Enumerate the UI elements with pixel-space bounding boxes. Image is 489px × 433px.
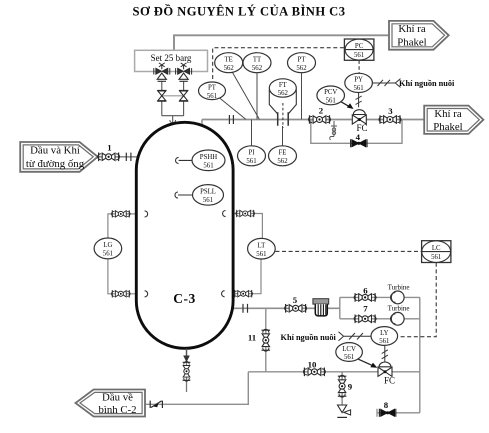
wire drain stub with hook [331,121,337,137]
banner Khi ra Phakel right [424,106,483,134]
control valve LCV FC bottom with actuator [378,362,395,386]
dashed signal LC561 to LY561 [398,263,436,337]
box Set 25 barg [135,50,208,71]
svg-text:8: 8 [384,400,389,410]
valve LT top [236,210,255,217]
svg-text:561: 561 [103,251,113,258]
svg-text:PSLL: PSLL [200,189,216,196]
instrument PSLL561 [193,185,224,206]
wire liquid outlet pipe [231,307,340,309]
svg-text:562: 562 [224,65,235,72]
svg-text:7: 7 [363,303,368,313]
wire vessel bottom drain [186,349,188,393]
instrument LCV561 [336,343,363,362]
dashed signal PC561 to PY561 [358,61,360,74]
banner Dau va Khi tu duong ong [20,142,98,172]
controller LC561 [422,241,451,263]
svg-text:Khí nguồn nuôi: Khí nguồn nuôi [399,79,455,88]
valve 9 [338,375,347,397]
isolation valve under PSV right [179,90,188,101]
wire impulse TT562 to pipe [256,73,258,120]
svg-text:Set 25 barg: Set 25 barg [151,53,192,63]
node nozzle hook LG top [145,211,148,217]
valve 8 [379,409,395,417]
instrument LT561 [248,238,276,259]
valve 10 [303,368,325,377]
arrow vessel bottom outflow [186,349,188,357]
svg-text:562: 562 [296,65,307,72]
wire link between relief isolation valves [162,95,184,97]
instrument PT562 [288,53,316,73]
svg-text:Phakel: Phakel [433,121,462,133]
banner Khi ra Phakel top [389,21,449,50]
svg-text:PT: PT [298,57,307,64]
svg-text:561: 561 [326,98,336,105]
svg-text:LCV: LCV [342,346,356,353]
svg-text:1: 1 [107,143,111,153]
wire flare header to Khi ra Phakel [174,35,390,50]
control valve FC top with actuator [352,110,367,133]
valve vessel bottom drain [183,361,191,381]
valve 5 [285,304,307,313]
drain funnel under valve 9 [337,405,350,417]
instrument PY561 [345,73,373,92]
svg-text:Khí nguồn nuôi: Khí nguồn nuôi [281,333,337,342]
wire inlet line from banner to vessel [98,156,139,158]
valve LT bottom [234,290,253,297]
pneumatic air supply to LY561 [339,332,372,341]
wire impulse FE562 [282,126,284,146]
filter strainer [313,299,329,316]
svg-text:Phakel: Phakel [397,36,426,48]
instrument FT562 [269,79,296,97]
wire valve11 drop [265,308,267,372]
valve 1 [98,153,120,162]
svg-text:bình C-2: bình C-2 [98,404,136,416]
valve LG top [111,210,130,217]
controller PC561 [344,39,374,60]
svg-text:2: 2 [319,106,324,116]
node nozzle hook LT bottom [222,291,225,297]
svg-text:561: 561 [353,85,363,92]
relief valve PSV left [154,63,170,81]
wire LT taps [224,214,262,294]
turbine 2 [388,305,410,326]
wire lower pipe to LCV [248,371,419,373]
valve 3 [379,115,401,124]
dashed signal LT561 to LC561 [275,250,421,252]
pneumatic signal PY561 to FC valve [356,93,362,108]
svg-text:Dầu và Khí: Dầu và Khí [30,145,80,157]
svg-text:FC: FC [384,376,395,386]
valve 11 [262,329,271,351]
wire bypass around FC valve [311,120,402,144]
svg-text:LC: LC [432,245,441,252]
isolation valve under PSV left [157,90,166,101]
svg-text:562: 562 [277,158,288,165]
valve 6 [354,293,376,302]
wire valve8 segment [377,409,420,417]
flange pair on top pipe [229,115,233,124]
instrument PI561 [238,146,266,166]
svg-text:PC: PC [355,43,364,50]
valve LG bottom [111,290,130,297]
svg-text:Khí ra: Khí ra [398,23,425,35]
svg-text:Khí ra: Khí ra [434,108,461,120]
svg-text:FT: FT [279,82,288,89]
svg-text:11: 11 [248,332,256,342]
instrument PT561 [199,82,226,100]
instrument FE562 [269,146,297,166]
pneumatic air supply to PY561 [373,79,401,88]
instrument LY561 [371,327,398,346]
turbine 1 [388,283,410,304]
svg-text:562: 562 [252,65,263,72]
arrow PCV561 to valve [339,100,350,106]
dashed signal PT561 to PC561 [213,48,345,79]
wire relief legs [162,81,184,122]
svg-text:5: 5 [293,295,298,305]
svg-text:561: 561 [256,251,266,258]
node nozzle hook LT top [223,211,226,217]
node vessel top nozzle hook [170,120,176,123]
svg-text:561: 561 [203,197,213,204]
instrument PSHH561 [192,150,225,171]
node nozzle hook PSHH [176,157,193,163]
wire top gas pipe [202,119,424,121]
svg-text:từ đường ống: từ đường ống [26,158,85,170]
svg-text:LT: LT [258,243,267,250]
wire turbine outlets to riser [404,297,420,412]
svg-text:Turbine: Turbine [388,305,410,313]
wire turbine branch tee [340,297,392,318]
svg-text:Turbine: Turbine [388,283,410,291]
svg-text:PCV: PCV [324,89,337,96]
valve 4 [351,139,367,147]
valve 7 [354,315,376,324]
svg-text:FE: FE [279,150,287,157]
flange pair on inlet [126,153,131,161]
check valve on dau ve line [150,401,162,408]
svg-text:PI: PI [248,150,255,157]
wire dau ve binh C-2 line [146,372,249,405]
node nozzle hook PSLL [175,192,193,198]
instrument TE562 [215,53,243,73]
svg-text:3: 3 [388,106,393,116]
svg-text:TE: TE [225,57,233,64]
flange pair on outlet pipe [243,304,248,313]
svg-text:PY: PY [354,77,363,84]
wire LG taps [108,214,138,294]
arrow LCV561 to valve [358,359,373,366]
wire valve9 drain drop [341,372,343,405]
svg-text:6: 6 [363,286,368,296]
svg-text:561: 561 [203,163,213,170]
node nozzle hook LG bottom [145,291,148,297]
svg-text:SƠ ĐỒ NGUYÊN LÝ CỦA BÌNH C3: SƠ ĐỒ NGUYÊN LÝ CỦA BÌNH C3 [133,4,346,19]
wire impulse PT561 to pipe [219,98,246,120]
wire impulse PI561 [251,120,253,147]
wire impulse TE562 to pipe [233,73,260,120]
svg-text:Dầu về: Dầu về [102,391,133,403]
pneumatic signal LY561 to LCV valve [382,346,388,362]
svg-text:561: 561 [379,338,389,345]
svg-text:PSHH: PSHH [200,154,217,161]
svg-text:TT: TT [253,57,262,64]
instrument TT562 [243,53,271,73]
svg-text:561: 561 [431,254,441,261]
valve 2 [309,115,331,124]
svg-text:LG: LG [103,242,112,249]
svg-text:LY: LY [380,330,388,337]
svg-text:C-3: C-3 [173,291,196,306]
svg-text:561: 561 [207,93,217,100]
orifice FE562 with FT562 funnel [269,90,296,115]
svg-text:561: 561 [354,52,364,59]
banner Dau ve binh C-2 [76,390,146,417]
wire vessel top stub [201,120,203,127]
svg-text:561: 561 [246,158,256,165]
wire impulse PT562 to pipe [301,73,303,120]
relief valve PSV right [176,63,192,81]
svg-text:562: 562 [278,90,289,97]
svg-text:10: 10 [308,359,317,369]
svg-text:4: 4 [356,132,361,142]
svg-text:561: 561 [344,354,354,361]
instrument LG561 [94,238,122,259]
vessel C-3 [136,122,233,348]
instrument PCV561 [317,86,345,105]
svg-text:PT: PT [208,85,217,92]
svg-text:9: 9 [348,381,353,391]
